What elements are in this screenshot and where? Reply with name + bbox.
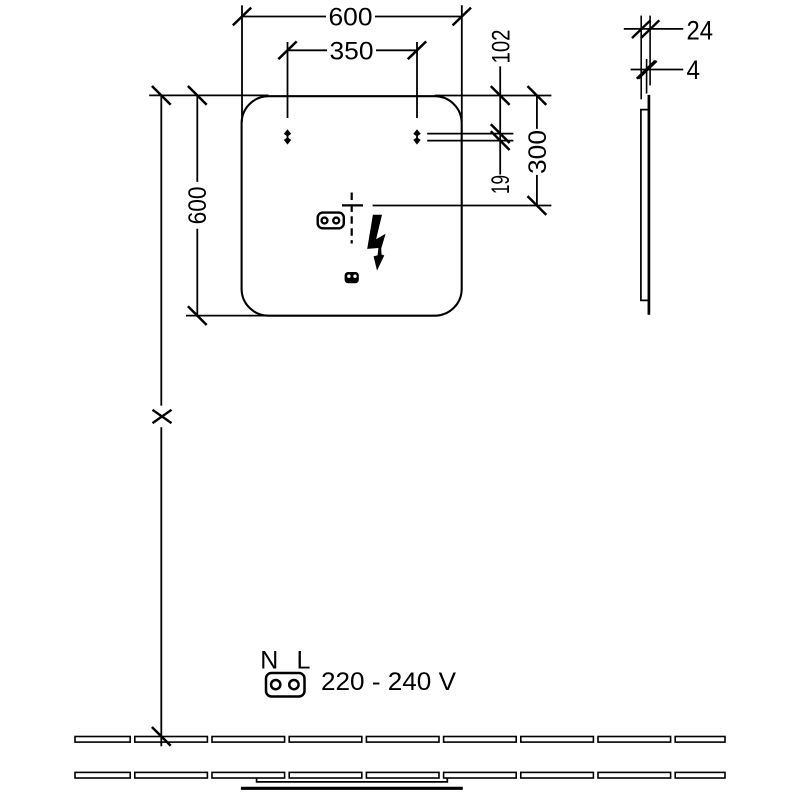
dim 4 line bbox=[631, 69, 684, 71]
mirror bottom projection thick line bbox=[241, 787, 463, 790]
dim 600 top tick right bbox=[453, 8, 471, 26]
shelf thin line bbox=[257, 779, 448, 782]
dim 600 top ext right bbox=[461, 5, 463, 121]
dim X vertical line upper bbox=[160, 95, 162, 405]
dim 102/19 vertical line bbox=[499, 66, 501, 174]
svg-text:600: 600 bbox=[329, 4, 373, 32]
socket symbol outline in mirror bbox=[318, 213, 344, 229]
lightning bolt bbox=[367, 215, 385, 271]
side view glass panel bbox=[648, 95, 651, 315]
dim 24 tick left bbox=[632, 20, 650, 38]
dim X vertical line lower bbox=[160, 427, 162, 746]
svg-text:N: N bbox=[260, 646, 278, 674]
mount line 2 bbox=[427, 140, 513, 142]
dim 24 tick right bbox=[641, 20, 659, 38]
svg-text:4: 4 bbox=[687, 55, 701, 85]
mount symbol right bbox=[413, 129, 420, 136]
tile row 2 bbox=[75, 772, 725, 778]
extension line mirror mid right bbox=[373, 205, 552, 207]
filled socket white dots bbox=[347, 275, 350, 278]
mount symbol left bbox=[284, 129, 291, 136]
svg-text:300: 300 bbox=[524, 130, 552, 174]
filled socket symbol bbox=[345, 272, 359, 283]
dim 350 tick left bbox=[278, 41, 296, 59]
svg-text:19: 19 bbox=[487, 175, 515, 194]
dim X break mark bbox=[153, 410, 172, 423]
dim 600 left line upper bbox=[196, 95, 198, 181]
dim 4 tick 1 bbox=[637, 61, 655, 79]
svg-text:24: 24 bbox=[687, 16, 714, 46]
dim tick at mount line 2 bbox=[491, 131, 510, 150]
dim X tick bottom bbox=[152, 727, 171, 746]
dim 350 tick right bbox=[408, 41, 426, 59]
svg-text:102: 102 bbox=[487, 30, 515, 64]
dim 300 tick bottom bbox=[528, 196, 547, 215]
dim 300 line lower bbox=[536, 175, 538, 206]
dim 600 left line lower bbox=[196, 229, 198, 316]
dim tick at mount line 1 bbox=[491, 124, 510, 143]
extension line mirror top right bbox=[435, 95, 552, 97]
dim 350 ext left bbox=[287, 42, 289, 118]
dim 102 tick at top edge bbox=[491, 86, 510, 105]
side view ext line front bbox=[649, 16, 651, 86]
dim 600 left tick top bbox=[188, 86, 207, 105]
dim 4 tick 2 bbox=[638, 61, 656, 79]
dim 600 left tick bottom bbox=[188, 306, 207, 325]
mirror outline front view bbox=[242, 96, 462, 316]
mount line 1 bbox=[427, 133, 513, 135]
extension line mirror top left bbox=[149, 94, 268, 96]
centerline cross bar bbox=[342, 204, 363, 206]
side view ext line back bbox=[640, 16, 642, 100]
side view ext line glass bbox=[646, 59, 648, 94]
extension line mirror bottom left bbox=[186, 315, 269, 317]
dim 24 line bbox=[624, 28, 683, 30]
dim 300 tick top bbox=[528, 86, 547, 105]
bottom socket symbol bbox=[266, 673, 305, 697]
dim 350 ext right bbox=[416, 42, 418, 118]
tile row 1 bbox=[75, 737, 725, 743]
dim X tick top bbox=[152, 86, 171, 105]
side view back bracket bbox=[641, 110, 649, 301]
svg-text:600: 600 bbox=[184, 186, 212, 224]
svg-text:220 - 240 V: 220 - 240 V bbox=[321, 668, 456, 696]
dim 350 line bbox=[288, 49, 328, 51]
centerline dashed bbox=[351, 193, 353, 244]
svg-text:L: L bbox=[297, 646, 311, 674]
dim 600 top tick left bbox=[233, 8, 251, 26]
dim 600 top ext left bbox=[241, 5, 243, 121]
svg-text:350: 350 bbox=[330, 37, 374, 65]
dim 600 top line bbox=[242, 16, 326, 18]
dim 300 line upper bbox=[536, 96, 538, 129]
